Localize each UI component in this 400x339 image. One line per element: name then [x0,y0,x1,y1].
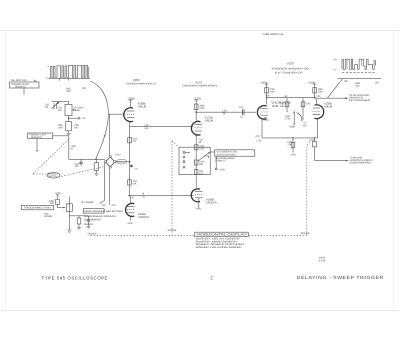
wiper arrow [72,109,76,111]
svg-text:–100: –100 [302,125,308,128]
wire V130A cathode down [261,119,263,138]
svg-text:–150V: –150V [290,154,297,157]
svg-text:SW160B: SW160B [301,232,310,235]
svg-text:LEVEL: LEVEL [74,109,82,112]
svg-text:47K: 47K [306,102,310,105]
svg-text:20V: 20V [375,82,379,85]
svg-text:0: 0 [46,77,48,80]
svg-text:TRIGGER AMPLIFIER: TRIGGER AMPLIFIER [181,84,217,87]
svg-text:+(.8W): +(.8W) [289,126,296,129]
dotted baseline of W2 [342,71,375,73]
svg-text:+1: +1 [47,65,50,68]
svg-text:MAIN SWEEP NORMAL: MAIN SWEEP NORMAL [84,215,117,218]
waveform W1: trigger input pulses (top left) [49,65,91,80]
svg-text:+100: +100 [265,95,271,98]
svg-text:4.7K: 4.7K [111,204,116,207]
svg-text:½6DJ8: ½6DJ8 [324,104,333,108]
switch SW2 contacts [105,156,116,169]
svg-text:1/4W: 1/4W [199,147,205,150]
wire grid of V183B [109,114,125,155]
tube V145B (triode) [191,189,200,202]
svg-text:+½: +½ [142,195,145,198]
svg-text:50K: 50K [50,202,54,205]
wire SW2 bottom contact down to select rows [109,168,111,205]
arrow inside switch [198,153,209,161]
svg-text:½6DJ8: ½6DJ8 [205,119,214,123]
wire SW2 left contact down to select rows [100,163,105,204]
wire cathode down [129,122,131,196]
divider resistors between tubes [286,98,288,113]
arrow from note to box [34,80,37,82]
oval label TRIGGER SLOPE [117,159,127,164]
resistor 100K with ground [77,218,81,224]
wire to pot column [58,205,62,208]
ground symbol [66,133,70,135]
tube V145A (triode) [126,203,135,216]
curved grid hop [297,113,302,122]
box: HORIZONTAL DISPLAY [195,232,249,236]
tube V130B (triode, mirrored) [315,105,324,119]
svg-text:SW160B: SW160B [168,229,177,232]
svg-text:SWEEP IN: SWEEP IN [31,136,42,139]
wire plate supply V130A [265,84,269,105]
note box: EXT SWEEP ATTEN SWITCH [215,150,255,156]
svg-text:+90: +90 [284,95,288,98]
svg-text:TD2: TD2 [239,106,244,109]
box: TRIGGER OF EXT SWEEP CKT (input note box) [10,82,40,88]
svg-text:TRIGGERING LEVEL: TRIGGERING LEVEL [24,207,53,210]
waveform W2 axis [338,78,381,80]
box MAIN SWEEP SELECTED [83,209,104,213]
wire V130B cathode down [317,119,319,138]
svg-text:SW-2: SW-2 [115,154,121,157]
tube V172B (triode) [191,121,200,135]
dashed horizontal right part [249,234,307,236]
svg-text:+10: +10 [82,117,86,120]
resistor 750K on cathode line [194,145,198,150]
switch contacts [183,151,190,168]
wire: arrow down from input box [36,139,38,151]
svg-text:+8: +8 [131,197,134,200]
svg-text:DEL SWP TRIG: DEL SWP TRIG [11,79,27,82]
svg-text:10: 10 [240,116,243,119]
svg-text:RANGE: RANGE [44,215,52,218]
svg-text:(SWEEP AMPLIFIER): (SWEEP AMPLIFIER) [350,162,372,165]
svg-text:1/4W: 1/4W [270,90,276,93]
tube V130A (triode) [257,106,266,120]
svg-text:1/4W: 1/4W [58,126,64,129]
svg-text:V130: V130 [287,62,294,66]
svg-text:STABILITY: STABILITY [215,159,226,162]
junction [129,195,131,197]
potentiometer TRIGGERING LEVEL [66,204,72,212]
svg-text:½6DQ7A: ½6DQ7A [138,215,149,219]
svg-text:+100: +100 [316,95,322,98]
wire plate supply [194,100,198,121]
svg-text:+100: +100 [255,135,261,138]
svg-text:6-2-58: 6-2-58 [319,259,326,262]
svg-text:42A: 42A [102,204,106,207]
wire to ext sweep note [210,151,214,153]
wire plate supply [129,100,133,108]
dashed horizontal left part [91,234,195,236]
page edge bottom [0,310,400,312]
capacitor TD2 10 on coupling wire [243,109,245,115]
svg-text:2.7M: 2.7M [257,139,262,142]
svg-text:27K: 27K [288,143,292,146]
svg-text:45A: 45A [145,127,149,130]
svg-text:EXT SWEEP CF: EXT SWEEP CF [275,72,304,75]
dashed gang vertical SW160B [171,141,173,235]
oval label GANGED SWITCH [47,173,60,179]
resistor 270K plate load V130A [265,88,269,93]
svg-text:/DIV: /DIV [355,85,360,88]
dashed gang link from SW160A [33,140,68,175]
page edge top [0,30,400,32]
svg-text:6DJ8: 6DJ8 [272,104,279,108]
capacitor CD2 on trigger line [79,159,82,166]
wire +8 line [129,195,193,197]
wire branch [69,215,88,217]
svg-text:SWP SWEEP: SWP SWEEP [84,219,101,222]
resistor GD2 470 on cathode line [128,138,132,143]
wire V130B plate up [316,99,318,105]
svg-text:DLY SWEEP: DLY SWEEP [81,201,94,204]
svg-text:+17: +17 [333,69,337,72]
svg-text:+20: +20 [333,58,337,61]
wire top coupling [267,97,315,99]
output arrow: to delaying swp generator [315,97,346,99]
svg-text:TRIGGER-AMPLIFIER CF: TRIGGER-AMPLIFIER CF [126,82,157,85]
dashed gang entry [172,141,179,147]
svg-text:SW160A: SW160A [84,223,93,226]
resistor TD2 47K on cathode line [128,180,132,185]
resistor 470 lower [194,170,198,175]
svg-text:½6DJ8: ½6DJ8 [138,105,147,109]
svg-text:SWEEP CI: SWEEP CI [15,85,26,88]
resistor on trigger line with ground [94,163,98,171]
svg-text:TYPE 545 OSCILLOSCOPE: TYPE 545 OSCILLOSCOPE [42,276,109,281]
wire plate supply V130B [313,84,317,98]
resistor 500K [56,199,60,204]
junction dot [129,161,131,163]
svg-text:1/4W: 1/4W [199,107,205,110]
svg-text:MAIN SWEEP SELECTED: MAIN SWEEP SELECTED [84,210,123,213]
resistor 100K plate load V130B [313,88,317,93]
svg-text:TRIGGER SHAPER OR: TRIGGER SHAPER OR [271,68,310,71]
wire V172B plate to V130A grid [196,111,256,113]
wire cathode down [198,198,200,208]
svg-text:20V: 20V [82,87,86,90]
svg-text:½6DQ7A: ½6DQ7A [206,201,217,205]
svg-text:1/4W: 1/4W [318,90,324,93]
ground for pot column [67,230,71,232]
wire stub below note box [23,88,25,94]
wire below pot with junction [68,116,70,122]
wire common cathode [262,137,318,139]
svg-text:SWITCH: SWITCH [49,175,58,178]
label 2MS tick [341,79,342,81]
svg-text:ADJ: ADJ [58,109,63,112]
resistor V100 27K below cathode wire [292,138,294,153]
wire plate to V172B grid [130,126,194,128]
page edge left [5,31,7,311]
svg-text:47: 47 [104,135,107,138]
svg-text:HORIZONTAL DISPLAY: HORIZONTAL DISPLAY [197,233,247,237]
svg-text:–150V: –150V [219,168,226,171]
svg-text:48: 48 [223,112,226,115]
svg-text:–1½: –1½ [134,168,138,171]
wire top of pot cluster [52,101,69,104]
potentiometer R: DLY SWP LEVEL [65,104,72,115]
svg-text:–100V: –100V [195,208,202,211]
wire down to V145A plate [129,196,131,203]
switch box SW160 outline [179,147,210,175]
wire: input box to trigger line [53,136,105,160]
svg-text:2.7M: 2.7M [264,119,269,122]
cathode junction [195,135,197,137]
svg-text:/DIV: /DIV [67,90,72,93]
terminal: open circle +10 [69,117,79,119]
page edge right [393,31,395,311]
svg-text:(DELAYING SWEEP): (DELAYING SWEEP) [349,99,370,102]
svg-text:C: C [211,276,215,281]
label at junction [130,165,132,167]
resistor 180K plate load [194,104,198,110]
diagonal to waveform axis [328,81,341,98]
coupling RC below V130B [314,138,316,142]
wire supply column [56,195,59,200]
wire to -150V terminal [205,156,209,158]
potentiometer TD2 100 (neon/diode symbol) [52,102,59,109]
junction plate wire [195,111,197,113]
svg-text:–150V: –150V [127,222,134,225]
tube V183B (triode) [124,108,133,122]
wire switch to cathode line [116,161,130,163]
lower divider [293,112,295,124]
resistor R: 2.2M [66,122,72,131]
svg-text:2.7M: 2.7M [285,117,290,120]
wire to ground [68,131,70,133]
box: TRIGGERING LEVEL [22,205,54,210]
svg-text:SW160A: SW160A [88,233,97,236]
svg-text:DELAYING - SWEEP TRIGGER: DELAYING - SWEEP TRIGGER [297,275,384,280]
output arrow: to sweep amplifier [315,160,347,162]
wire: big S-curve from waveform to trigger input line [90,81,108,159]
svg-text:SWEEP: DELAYING SWEEP: SWEEP: DELAYING SWEEP [196,246,243,249]
dashed link to SW2 [61,167,105,177]
svg-text:V-1388 .2MS/DIV TEK: V-1388 .2MS/DIV TEK [262,33,284,36]
svg-text:235: 235 [344,80,348,83]
dashed gang vertical right [307,142,310,236]
wire cathode down through switch area [195,136,197,189]
capacitor .1 with ground [87,216,90,227]
svg-text:47K: 47K [133,182,137,185]
junction [314,97,316,99]
resistor TD2A 180 on cathode line [194,160,198,165]
waveform W2: shaper output pulses [342,59,375,69]
box: TRIGGER or EXT SWEEP IN [28,133,53,139]
